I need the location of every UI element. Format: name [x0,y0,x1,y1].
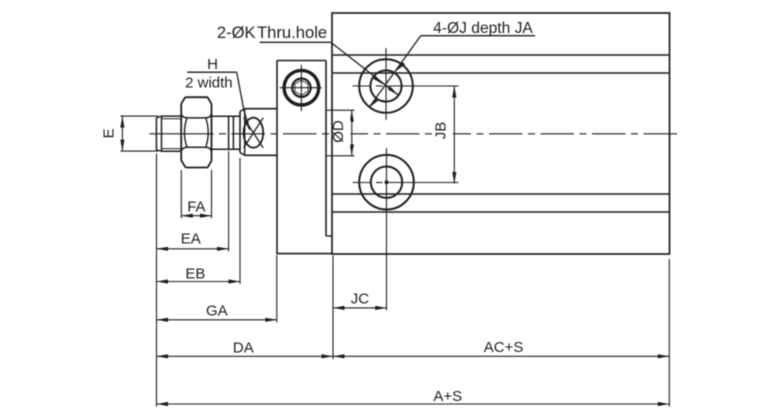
svg-text:EB: EB [185,265,205,282]
svg-text:ØD: ØD [330,120,347,143]
svg-text:GA: GA [206,303,228,320]
svg-text:2-ØK Thru.hole: 2-ØK Thru.hole [217,23,327,42]
svg-text:E: E [101,128,118,138]
svg-text:2 width: 2 width [185,74,233,91]
svg-text:A+S: A+S [433,388,462,405]
svg-text:DA: DA [233,339,254,356]
svg-text:AC+S: AC+S [484,339,524,356]
svg-text:H: H [207,56,218,73]
svg-text:FA: FA [187,199,205,216]
svg-text:JC: JC [351,291,370,308]
svg-text:JB: JB [433,122,450,140]
svg-text:EA: EA [181,231,201,248]
svg-text:4-ØJ depth JA: 4-ØJ depth JA [433,20,533,37]
